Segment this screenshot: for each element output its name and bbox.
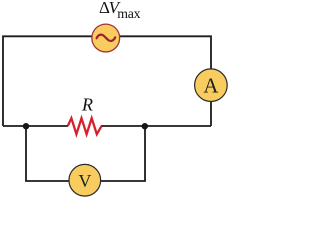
svg-text:A: A xyxy=(203,74,218,97)
svg-text:V: V xyxy=(78,171,91,191)
ammeter U1 circle xyxy=(195,69,228,102)
svg-text:max: max xyxy=(117,6,140,21)
wire: top side of main loop xyxy=(3,36,211,126)
wire: resistor row (bottom of main loop) xyxy=(3,125,211,127)
voltmeter U2 circle xyxy=(69,164,101,196)
node B: right junction dot xyxy=(142,123,148,129)
node A: left junction dot xyxy=(23,123,29,129)
svg-text:R: R xyxy=(81,95,93,115)
AC source sine wave xyxy=(97,35,116,41)
resistor R1 zigzag xyxy=(68,118,102,134)
wire: voltmeter branch xyxy=(26,126,145,181)
AC source circle xyxy=(92,24,120,52)
